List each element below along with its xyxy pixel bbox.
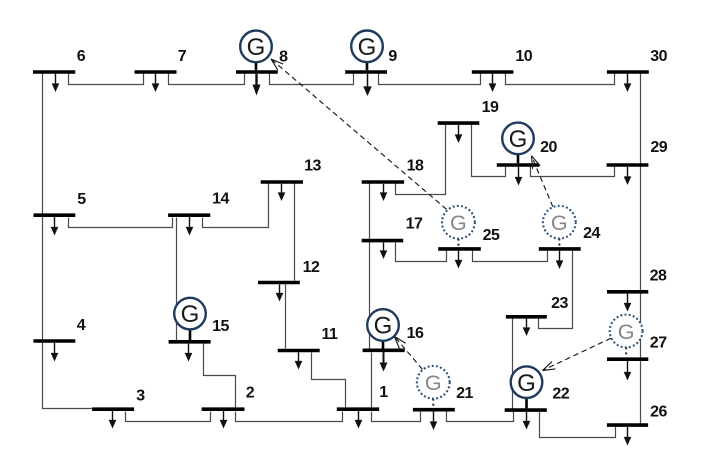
- svg-text:12: 12: [303, 259, 320, 276]
- svg-text:22: 22: [552, 386, 569, 403]
- svg-text:G: G: [450, 211, 467, 235]
- svg-text:8: 8: [279, 49, 288, 66]
- svg-text:7: 7: [178, 48, 187, 65]
- svg-text:G: G: [374, 313, 393, 340]
- svg-text:16: 16: [407, 325, 424, 342]
- svg-text:26: 26: [650, 404, 667, 421]
- svg-text:1: 1: [379, 384, 388, 401]
- svg-text:20: 20: [540, 139, 557, 156]
- svg-text:6: 6: [77, 48, 86, 65]
- svg-text:3: 3: [136, 388, 145, 405]
- svg-text:18: 18: [407, 158, 424, 175]
- svg-text:30: 30: [650, 48, 667, 65]
- svg-text:G: G: [425, 371, 442, 395]
- svg-text:28: 28: [650, 268, 667, 285]
- svg-text:29: 29: [650, 139, 667, 156]
- svg-text:10: 10: [515, 48, 532, 65]
- svg-text:4: 4: [77, 317, 86, 334]
- svg-text:24: 24: [583, 225, 600, 242]
- svg-text:9: 9: [388, 48, 397, 65]
- svg-text:G: G: [509, 126, 528, 153]
- svg-text:15: 15: [212, 318, 229, 335]
- svg-text:21: 21: [456, 385, 473, 402]
- svg-text:G: G: [181, 301, 200, 328]
- svg-text:13: 13: [304, 158, 321, 175]
- svg-text:19: 19: [482, 99, 499, 116]
- svg-text:14: 14: [212, 191, 229, 208]
- svg-text:11: 11: [322, 326, 339, 343]
- svg-text:G: G: [618, 320, 635, 344]
- svg-text:G: G: [358, 34, 377, 61]
- svg-text:G: G: [551, 211, 568, 235]
- svg-text:G: G: [517, 370, 536, 397]
- svg-text:G: G: [247, 34, 266, 61]
- svg-text:23: 23: [551, 295, 568, 312]
- svg-text:5: 5: [77, 191, 86, 208]
- svg-text:17: 17: [406, 216, 423, 233]
- svg-text:27: 27: [650, 335, 667, 352]
- svg-text:25: 25: [483, 227, 500, 244]
- svg-text:2: 2: [246, 385, 255, 402]
